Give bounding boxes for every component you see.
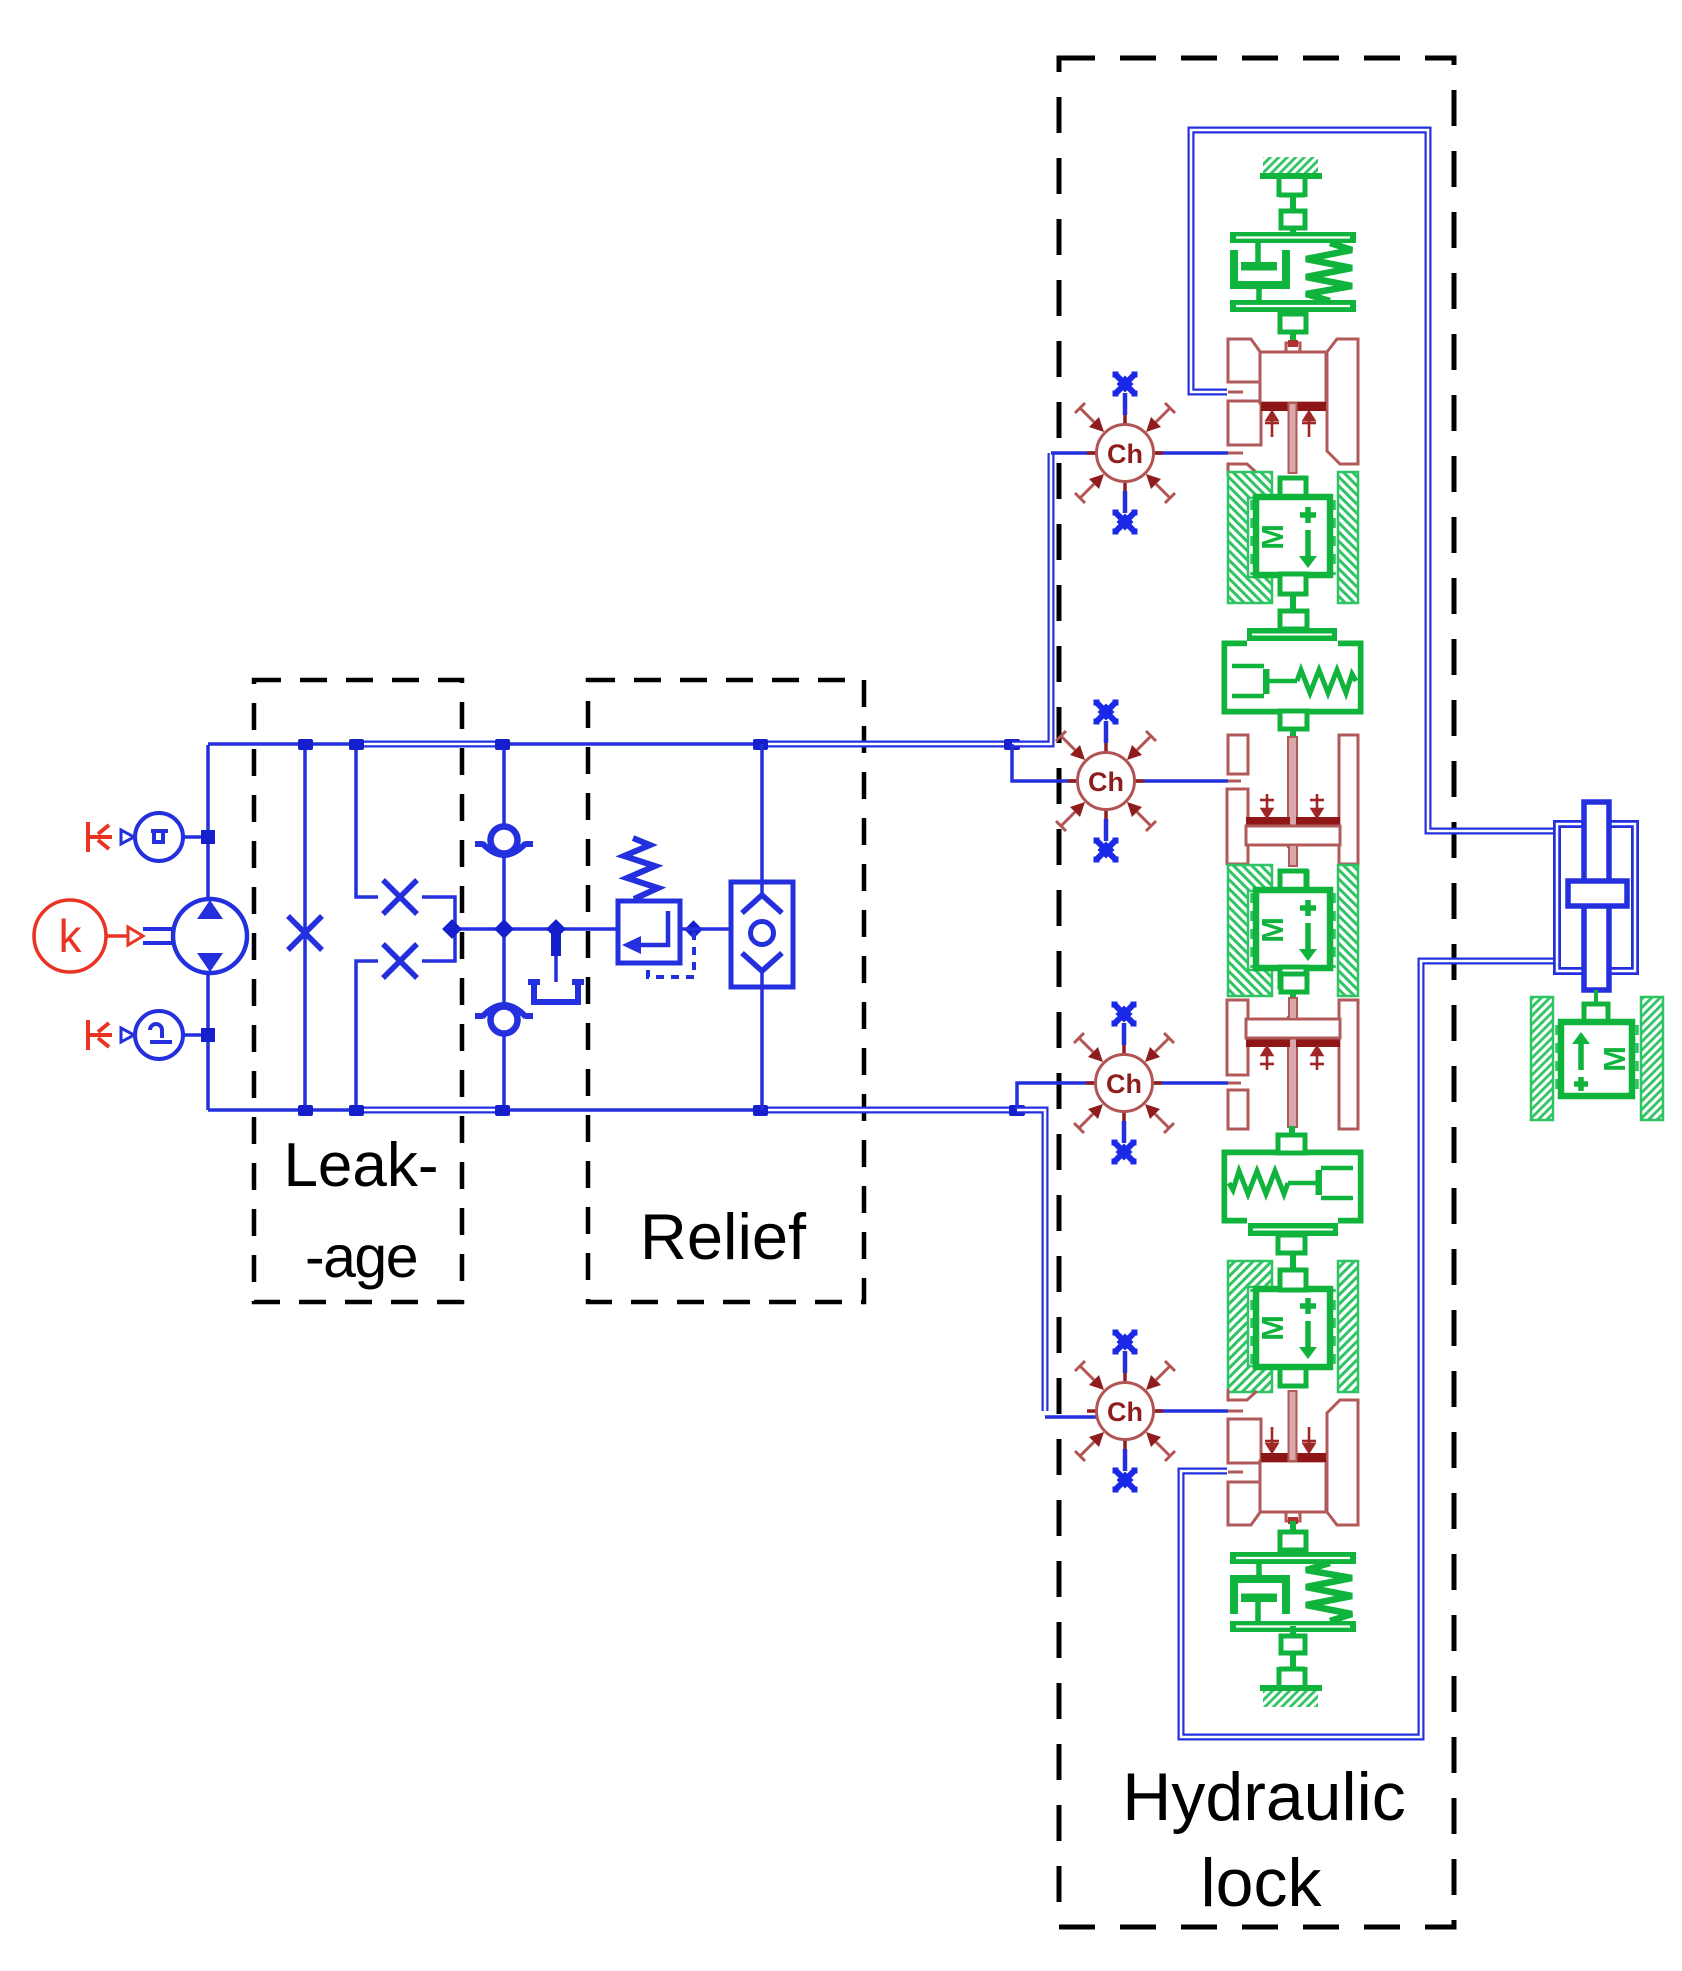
joint piston to mass2 <box>1281 872 1307 890</box>
wire Ch1 left <box>1051 451 1097 455</box>
load mass box <box>1561 1022 1632 1096</box>
relief valve internal arrow <box>638 911 668 945</box>
wire check valve column <box>502 744 506 1110</box>
pump shaft <box>143 927 177 931</box>
pipe loop bottom <box>1181 961 1553 1737</box>
load mass left wall <box>1531 997 1553 1120</box>
svg-text:Leak-: Leak- <box>283 1131 438 1200</box>
check valve CV2 <box>475 1005 533 1034</box>
mass block walls top <box>1228 472 1358 612</box>
wire leak throttle branch left <box>303 744 307 1110</box>
signal source k circle <box>34 900 106 972</box>
relief valve RV body <box>618 901 680 963</box>
ground bottom anchor hatch <box>1263 1690 1318 1707</box>
actuator cylinder body <box>1557 824 1635 971</box>
ground top anchor <box>1279 179 1305 238</box>
svg-text:-age: -age <box>305 1224 417 1290</box>
chamber Ch1 <box>1075 372 1175 535</box>
dashed box Leak-age <box>254 680 462 1302</box>
wire Ch4 left <box>1045 1415 1097 1419</box>
wire Ch2 right <box>1134 779 1228 783</box>
damper box horizontal 2 <box>1225 1126 1360 1253</box>
node sigma junction <box>201 830 215 844</box>
chamber Ch4 <box>1075 1330 1175 1493</box>
pipe top rail doubled segment <box>356 741 502 748</box>
wire tank branch <box>554 932 558 982</box>
pump P1 <box>173 899 247 973</box>
pipe loop top <box>1191 130 1556 831</box>
joint mass2 to piston lower <box>1281 974 1307 992</box>
chamber Ch2 <box>1056 700 1156 863</box>
pipe to Ch4 dropper <box>1017 1110 1045 1411</box>
wire bottom rail <box>208 1108 762 1112</box>
piston element lower <box>1227 998 1358 1129</box>
piston element upper <box>1227 735 1358 866</box>
wire Ch3 branch <box>1017 1083 1096 1110</box>
ground bottom anchor <box>1279 1626 1305 1685</box>
wire R2 to node <box>422 897 455 926</box>
node rho junction <box>201 1028 215 1042</box>
dashed box Relief <box>588 680 864 1302</box>
ground top anchor hatch <box>1263 157 1318 174</box>
spring damper unit bottom <box>1230 1521 1356 1632</box>
node dots top rail <box>298 739 1020 750</box>
mass block 3 walls <box>1228 1252 1358 1392</box>
check valve CV1 <box>475 827 533 856</box>
wire Ch1 right <box>1153 451 1228 455</box>
wire leak lower branch <box>356 961 378 1110</box>
arrowhead sigma <box>121 830 134 844</box>
wire Ch2 branch <box>1012 744 1078 781</box>
sensor sigma circle <box>135 813 183 861</box>
node dots mid line <box>442 919 703 939</box>
wire POC column <box>760 744 764 1110</box>
actuator rod <box>1584 802 1609 990</box>
load mass plus <box>1574 1077 1588 1091</box>
wire top rail <box>208 742 760 746</box>
load mass dashed guides <box>1555 1025 1559 1095</box>
arrowhead k <box>128 927 143 945</box>
wire sigma to node <box>183 835 207 839</box>
wire rho to node <box>183 1033 207 1037</box>
svg-text:Relief: Relief <box>640 1200 807 1273</box>
mass block 2 walls <box>1228 865 1358 1005</box>
pilot operated check valve POC <box>731 882 793 987</box>
wire Ch3 right <box>1152 1081 1228 1085</box>
svg-text:M: M <box>1255 524 1290 550</box>
tank T1 <box>528 980 584 1002</box>
chamber Ch3 <box>1074 1002 1174 1165</box>
pipe bottom rail doubled segment <box>356 1107 502 1114</box>
load mass right wall <box>1641 997 1663 1120</box>
signal input rho antenna <box>88 1020 112 1050</box>
mass content M1 <box>1255 507 1317 568</box>
pipe to Ch1 riser <box>1012 453 1051 744</box>
rod link to load mass <box>1594 990 1598 1004</box>
wire leak upper branch <box>356 744 378 897</box>
poppet valve top <box>1228 339 1358 475</box>
node dots bottom rail <box>298 1105 1025 1116</box>
poppet valve bottom <box>1228 1389 1358 1525</box>
relief valve spring <box>624 838 658 899</box>
svg-text:Hydraulic: Hydraulic <box>1122 1759 1405 1835</box>
arrowhead rho <box>121 1028 134 1042</box>
wire k to pump shaft <box>107 934 127 938</box>
wire pump vertical <box>206 745 210 1110</box>
signal input sigma antenna <box>88 822 112 852</box>
svg-text:k: k <box>59 910 83 962</box>
relief pilot dashed line <box>648 932 694 977</box>
svg-text:M: M <box>1597 1046 1632 1072</box>
wire relief to POC <box>680 927 731 931</box>
throttle valve R2 <box>383 880 417 914</box>
actuator piston <box>1568 881 1627 906</box>
mass content M3 <box>1255 1298 1317 1359</box>
wire mid line <box>452 927 618 931</box>
load mass bracket <box>1584 1004 1608 1022</box>
damper box horizontal 1 <box>1225 611 1360 738</box>
load mass arrow up <box>1578 1042 1584 1070</box>
dashed box Hydraulic lock <box>1059 58 1454 1927</box>
throttle valve R1 <box>288 916 322 950</box>
mass content M2 <box>1255 900 1317 961</box>
throttle valve R3 <box>383 944 417 978</box>
wire Ch4 right <box>1153 1409 1228 1413</box>
svg-text:lock: lock <box>1201 1845 1323 1921</box>
spring damper unit top <box>1230 232 1356 343</box>
wire R3 to node <box>422 932 455 961</box>
sensor rho circle <box>135 1011 183 1059</box>
